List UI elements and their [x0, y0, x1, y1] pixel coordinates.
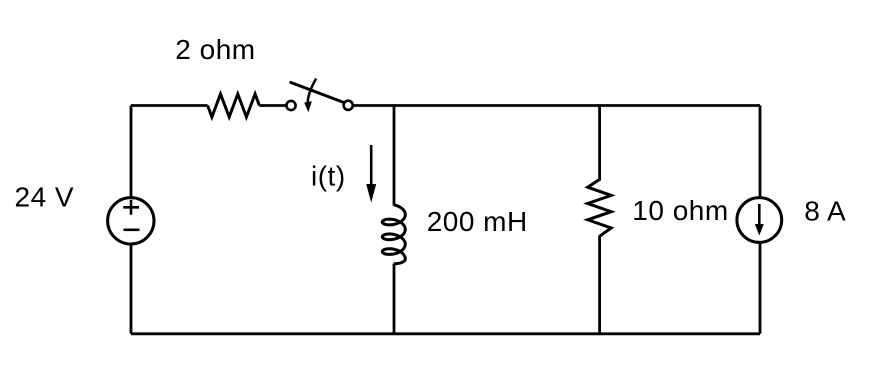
wire inductor branch upper [393, 106, 396, 206]
current source arrow [758, 204, 761, 228]
wire top from switch to top-right corner [353, 104, 760, 107]
wire right vertical upper [759, 106, 762, 198]
svg-text:8 A: 8 A [804, 195, 846, 226]
switch S1 right contact [344, 101, 353, 110]
wire left vertical upper [130, 106, 133, 198]
svg-text:2 ohm: 2 ohm [175, 34, 255, 65]
wire 10 ohm branch lower [598, 236, 601, 334]
switch S1 arrowhead [304, 101, 312, 112]
wire resistor to switch left contact [259, 104, 286, 107]
inductor L1 200 mH coil [382, 205, 405, 264]
current label arrow i(t) [370, 145, 373, 196]
switch S1 blade [290, 82, 345, 103]
wire right vertical lower [759, 242, 762, 333]
wire left vertical lower [130, 244, 133, 334]
wire bottom [131, 332, 760, 335]
svg-text:i(t): i(t) [311, 161, 346, 192]
switch S1 opening arrow arc [308, 79, 317, 103]
resistor R1 2 ohm [208, 94, 260, 117]
voltage source minus sign [124, 229, 140, 232]
voltage source plus sign [123, 200, 139, 215]
voltage source V1 circle [108, 198, 154, 244]
wire 10 ohm branch upper [598, 106, 601, 181]
switch S1 left contact [286, 101, 295, 110]
wire inductor branch lower [393, 264, 396, 334]
svg-text:200 mH: 200 mH [427, 206, 528, 237]
svg-text:24 V: 24 V [15, 182, 75, 213]
wire top-left horizontal from voltage source branch to resistor [131, 104, 208, 107]
current source I1 circle [737, 198, 782, 243]
svg-text:10 ohm: 10 ohm [632, 195, 728, 226]
resistor R2 10 ohm [588, 179, 612, 236]
